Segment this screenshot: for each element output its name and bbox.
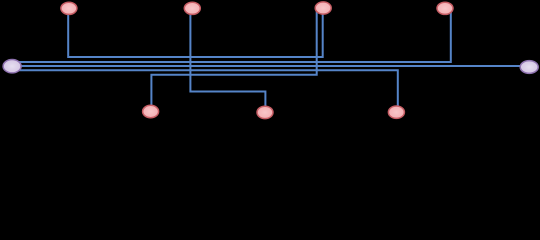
node T3 top pink ellipse 3	[315, 2, 331, 14]
node R right purple ellipse	[520, 61, 538, 74]
wire T1-T3 top route A	[68, 10, 323, 57]
wire T2-B2 route F	[190, 10, 265, 110]
node T2 top pink ellipse 2	[184, 2, 200, 14]
wire L-T4 route B	[14, 10, 451, 62]
node T4 top pink ellipse 4	[437, 2, 453, 14]
node T1 top pink ellipse 1	[61, 2, 77, 14]
wire L-R route C	[14, 65, 526, 67]
node L left purple ellipse	[3, 59, 21, 72]
node B1 bottom pink ellipse 1	[143, 105, 159, 117]
wire B1-T3 route E	[151, 10, 316, 110]
node B3 bottom pink ellipse 3	[388, 106, 404, 118]
wire L-B3 route D	[14, 70, 398, 110]
node B2 bottom pink ellipse 2	[257, 106, 273, 118]
